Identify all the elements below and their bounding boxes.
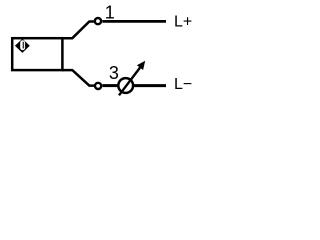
svg-text:L−: L− — [174, 76, 192, 93]
svg-text:1: 1 — [105, 2, 115, 22]
svg-text:L+: L+ — [174, 13, 192, 30]
svg-text:3: 3 — [109, 63, 119, 83]
